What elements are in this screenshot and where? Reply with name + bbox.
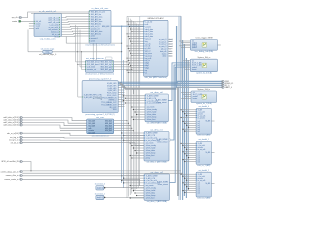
svg-text:sys_clk: sys_clk bbox=[12, 17, 18, 19]
svg-text:axi_smc: axi_smc bbox=[96, 117, 105, 119]
svg-text:clk: clk bbox=[193, 92, 195, 94]
svg-text:util_vector_logic: util_vector_logic bbox=[41, 47, 55, 50]
svg-text:M03_AXI_gp1: M03_AXI_gp1 bbox=[101, 68, 112, 71]
svg-text:rx_clk_wiz/clk_in1: rx_clk_wiz/clk_in1 bbox=[39, 10, 57, 13]
svg-text:prmry: prmry bbox=[146, 157, 150, 160]
svg-text:en: en bbox=[145, 72, 147, 74]
svg-text:dclk: dclk bbox=[169, 51, 172, 53]
svg-text:in0: in0 bbox=[198, 183, 200, 185]
svg-text:xlconstant_1: xlconstant_1 bbox=[95, 192, 105, 195]
svg-text:in5: in5 bbox=[198, 131, 200, 133]
svg-text:hier_debug_hub (ILA): hier_debug_hub (ILA) bbox=[195, 50, 214, 53]
svg-text:in3: in3 bbox=[198, 188, 200, 190]
svg-text:m_axi_aclk: m_axi_aclk bbox=[198, 149, 206, 151]
svg-text:axi_dwidth_0: axi_dwidth_0 bbox=[199, 105, 210, 108]
svg-text:s2mm_introut: s2mm_introut bbox=[157, 140, 168, 143]
svg-text:axi_dma_rx2: axi_dma_rx2 bbox=[150, 171, 163, 174]
svg-text:comms_dataa_axis_in: comms_dataa_axis_in bbox=[1, 170, 19, 173]
svg-text:axi_dma_0 (AXI DMA): axi_dma_0 (AXI DMA) bbox=[147, 121, 167, 124]
svg-text:in1: in1 bbox=[198, 184, 200, 186]
svg-text:System_ILA_tx: System_ILA_tx bbox=[197, 88, 210, 91]
svg-text:comms_resetn_in: comms_resetn_in bbox=[4, 178, 18, 181]
svg-text:in0: in0 bbox=[198, 121, 200, 123]
svg-text:M00_AXI: M00_AXI bbox=[102, 25, 110, 28]
svg-text:usr_trig_in: usr_trig_in bbox=[10, 136, 18, 139]
svg-text:probe0: probe0 bbox=[192, 67, 197, 69]
svg-text:probe3: probe3 bbox=[192, 47, 197, 49]
svg-text:aresetn_rst: aresetn_rst bbox=[87, 68, 96, 71]
svg-text:axi_mem_intercon_1: axi_mem_intercon_1 bbox=[86, 57, 107, 60]
svg-text:in5: in5 bbox=[198, 161, 200, 163]
svg-text:in1: in1 bbox=[198, 153, 200, 155]
svg-text:m_axi_aclk: m_axi_aclk bbox=[198, 180, 206, 182]
svg-text:axi_dwidth_2: axi_dwidth_2 bbox=[199, 169, 210, 172]
svg-text:xlconstant_0: xlconstant_0 bbox=[95, 183, 105, 186]
svg-text:s2mm_introut: s2mm_introut bbox=[156, 101, 167, 104]
svg-text:Cross_trigger_VIRM: Cross_trigger_VIRM bbox=[195, 36, 213, 39]
svg-text:ZYNQ: ZYNQ bbox=[93, 96, 103, 100]
svg-text:processing_system7_0: processing_system7_0 bbox=[89, 78, 112, 81]
svg-text:probe0: probe0 bbox=[193, 96, 198, 98]
svg-text:s2mm_tlast: s2mm_tlast bbox=[146, 197, 155, 200]
svg-text:ext_sync_in: ext_sync_in bbox=[9, 139, 19, 142]
svg-text:ref_clk_in: ref_clk_in bbox=[11, 142, 19, 144]
svg-text:done: done bbox=[163, 56, 167, 58]
svg-text:in3: in3 bbox=[198, 127, 200, 129]
svg-text:auto_us_0 (AXI): auto_us_0 (AXI) bbox=[197, 134, 210, 137]
svg-text:aclk: aclk bbox=[36, 28, 39, 30]
svg-text:UART_0: UART_0 bbox=[225, 86, 232, 89]
svg-text:adc3_data_in[11:0]: adc3_data_in[11:0] bbox=[3, 124, 19, 127]
svg-text:in5: in5 bbox=[198, 192, 200, 194]
svg-text:axi_interconnect_0: axi_interconnect_0 bbox=[92, 134, 110, 137]
svg-text:in2: in2 bbox=[198, 186, 200, 188]
svg-text:s_axi_aclk: s_axi_aclk bbox=[198, 176, 206, 178]
svg-text:System_ILA_rx: System_ILA_rx bbox=[197, 56, 210, 59]
svg-text:auto_us_1 (AXI): auto_us_1 (AXI) bbox=[197, 164, 210, 167]
svg-text:auto_us_2 (AXI): auto_us_2 (AXI) bbox=[197, 197, 210, 200]
svg-text:resetn: resetn bbox=[12, 20, 17, 23]
svg-text:usp_rf_data_conv: usp_rf_data_conv bbox=[40, 38, 56, 41]
svg-text:rx_dma_ctrl_smc: rx_dma_ctrl_smc bbox=[92, 7, 110, 10]
svg-text:GPIO_al Land Ext_IN: GPIO_al Land Ext_IN bbox=[1, 160, 19, 163]
svg-text:in4: in4 bbox=[198, 190, 200, 192]
svg-text:smartconnect_rx (SmartConnect): smartconnect_rx (SmartConnect) bbox=[85, 44, 115, 47]
svg-text:s2mm_tlast: s2mm_tlast bbox=[147, 118, 156, 121]
svg-text:S03_AXI: S03_AXI bbox=[88, 132, 95, 135]
svg-text:comms_clkin_in: comms_clkin_in bbox=[6, 175, 19, 177]
svg-text:clk: clk bbox=[192, 61, 194, 63]
svg-text:adc_or_in[3:0]: adc_or_in[3:0] bbox=[7, 133, 19, 135]
svg-text:M04_AXI: M04_AXI bbox=[105, 129, 112, 132]
svg-text:in2: in2 bbox=[198, 155, 200, 157]
svg-text:GENEsYsPD-ADC: GENEsYsPD-ADC bbox=[147, 17, 164, 20]
svg-text:util_reduced_logic_0: util_reduced_logic_0 bbox=[39, 53, 56, 56]
svg-text:processing_system7_0 (ZYNQ7): processing_system7_0 (ZYNQ7) bbox=[85, 113, 114, 116]
svg-text:in1: in1 bbox=[198, 123, 200, 125]
svg-text:s2mm_introut: s2mm_introut bbox=[158, 183, 169, 186]
svg-text:in2: in2 bbox=[198, 125, 200, 127]
svg-text:in4: in4 bbox=[198, 159, 200, 161]
svg-text:s_axi_aclk: s_axi_aclk bbox=[198, 145, 206, 147]
svg-text:m_axi_aclk: m_axi_aclk bbox=[198, 115, 206, 117]
svg-text:adc_hier (ADC Interface): adc_hier (ADC Interface) bbox=[145, 76, 167, 79]
svg-text:system_ila_0 (ILA): system_ila_0 (ILA) bbox=[196, 71, 212, 74]
svg-text:s_axi_aclk: s_axi_aclk bbox=[198, 111, 206, 113]
svg-text:in3: in3 bbox=[198, 157, 200, 159]
svg-text:axi_dwidth_1: axi_dwidth_1 bbox=[199, 138, 210, 141]
svg-text:aclk2: aclk2 bbox=[91, 41, 95, 43]
svg-text:axi_dma_rx0: axi_dma_rx0 bbox=[150, 91, 163, 94]
svg-text:done: done bbox=[169, 56, 173, 58]
svg-text:axi_dma_2 (AXI DMA): axi_dma_2 (AXI DMA) bbox=[147, 200, 167, 203]
svg-text:in4: in4 bbox=[198, 129, 200, 131]
svg-text:smartconnect_0 (SmartConnect): smartconnect_0 (SmartConnect) bbox=[85, 72, 114, 75]
svg-text:axi_dma_rx1: axi_dma_rx1 bbox=[150, 128, 163, 131]
svg-text:axi_dma_1 (AXI DMA): axi_dma_1 (AXI DMA) bbox=[147, 161, 167, 164]
svg-text:system_ila_1 (ILA): system_ila_1 (ILA) bbox=[196, 102, 212, 105]
svg-text:in0: in0 bbox=[198, 152, 200, 154]
